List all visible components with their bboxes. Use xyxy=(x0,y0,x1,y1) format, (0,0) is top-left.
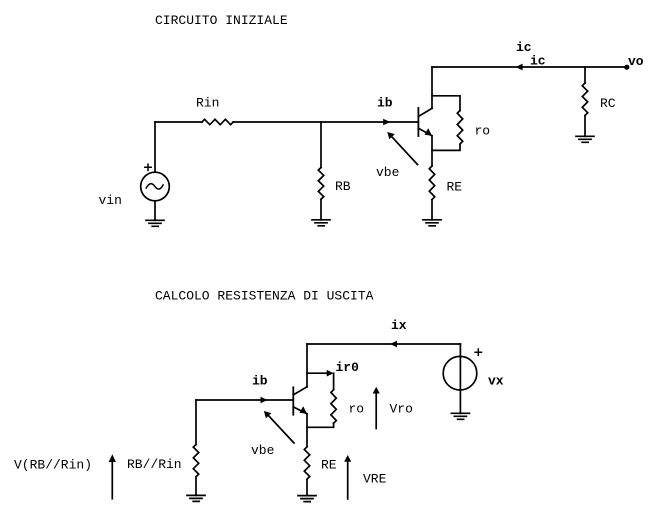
svg-text:vbe: vbe xyxy=(251,443,274,458)
source V1 vin: plus sign xyxy=(145,164,151,170)
svg-text:VRE: VRE xyxy=(363,472,387,487)
wire: Q2 collector up to rail xyxy=(306,344,308,387)
resistor RE (bottom circuit) xyxy=(304,447,309,479)
svg-text:vo: vo xyxy=(628,54,644,69)
wire: ro top branch xyxy=(432,96,460,111)
transistor Q2: base bar xyxy=(292,387,294,414)
resistor ro (bottom circuit) xyxy=(331,390,336,424)
wire: Q1 collector up to rail xyxy=(431,67,433,108)
wire: base rail left segment (vin to Rin) xyxy=(155,121,202,123)
source V1 vin: bottom lead wire xyxy=(154,201,156,221)
wire: base rail right segment (Rin to Q1 base) xyxy=(233,121,417,123)
transistor Q2: collector diagonal xyxy=(293,387,307,395)
resistor ro (top circuit) xyxy=(457,111,462,145)
svg-text:ir0: ir0 xyxy=(336,360,360,375)
source vx: plus sign xyxy=(475,349,481,355)
wire: ro top lead (bottom circuit) xyxy=(333,373,335,390)
wire: ir0 branch to ro xyxy=(307,372,330,374)
wire: top rail (bottom circuit) xyxy=(307,343,460,345)
ground under RB//Rin xyxy=(187,495,205,501)
wire: RE to ground (bottom circuit) xyxy=(306,479,308,495)
current arrow ib (bottom circuit) xyxy=(261,397,268,404)
resistor RE (top circuit) xyxy=(429,166,434,200)
voltage arrow vbe (top circuit) xyxy=(390,135,418,165)
ground under RB xyxy=(312,220,330,226)
wire: RB branch from rail xyxy=(320,122,322,168)
voltage arrow Vro xyxy=(375,393,377,429)
current arrow ib (top circuit) xyxy=(383,119,390,126)
transistor Q2: emitter diagonal xyxy=(293,407,307,414)
svg-text:Vro: Vro xyxy=(390,401,413,416)
svg-text:ro: ro xyxy=(475,124,491,139)
wire: RB//Rin branch xyxy=(195,400,197,444)
wire: RB to ground xyxy=(320,199,322,220)
wire: RB//Rin to ground xyxy=(195,477,197,495)
source V1 vin: circle xyxy=(141,172,170,201)
ground under RE (top circuit) xyxy=(423,220,441,226)
svg-text:V(RB//Rin): V(RB//Rin) xyxy=(14,458,92,473)
source vx: circle xyxy=(443,356,477,390)
transistor Q2: emitter arrowhead xyxy=(300,406,308,414)
wire: base rail (bottom circuit) xyxy=(196,399,293,401)
ground under RC xyxy=(576,136,594,142)
resistor RC xyxy=(582,83,587,115)
svg-text:Rin: Rin xyxy=(196,96,219,111)
wire: collector rail (top) xyxy=(432,66,627,68)
svg-text:ib: ib xyxy=(252,374,268,389)
voltage arrow V(RB//Rin) xyxy=(111,462,113,499)
source vx: lead wire through circle xyxy=(459,344,461,413)
wire: ro bottom branch xyxy=(432,144,460,150)
ground under RE (bottom circuit) xyxy=(298,496,316,502)
svg-text:RE: RE xyxy=(321,458,337,473)
wire: RC branch from rail xyxy=(584,67,586,83)
resistor Rin xyxy=(202,119,233,124)
source V1 vin: sine symbol xyxy=(146,184,163,189)
voltage arrow VRE xyxy=(347,461,349,499)
svg-text:vin: vin xyxy=(99,193,122,208)
svg-text:RB//Rin: RB//Rin xyxy=(127,457,182,472)
current arrow ix on rail xyxy=(390,341,397,348)
wire: RC to ground xyxy=(584,116,586,137)
source V1 vin: top lead wire xyxy=(154,122,156,172)
svg-text:ib: ib xyxy=(377,96,393,111)
transistor Q1: emitter diagonal xyxy=(418,128,432,136)
wire: ro bottom lead to emitter (bottom circuit) xyxy=(307,423,334,427)
ground under vx xyxy=(451,413,469,419)
transistor Q1: collector diagonal xyxy=(418,108,432,116)
transistor Q1: base bar xyxy=(417,108,419,136)
svg-text:RE: RE xyxy=(447,179,463,194)
wire: RE to ground xyxy=(431,200,433,220)
ground under vin xyxy=(146,220,164,226)
resistor RB xyxy=(318,168,323,200)
wire: Q2 emitter down to RE xyxy=(306,414,308,447)
svg-text:CALCOLO RESISTENZA DI USCITA: CALCOLO RESISTENZA DI USCITA xyxy=(155,289,374,304)
svg-text:CIRCUITO INIZIALE: CIRCUITO INIZIALE xyxy=(155,13,288,28)
voltage arrow vbe (bottom circuit) xyxy=(267,414,295,444)
current arrow ic on rail xyxy=(516,64,523,71)
svg-text:ic: ic xyxy=(530,54,546,69)
wire: Q1 emitter down to RE xyxy=(431,136,433,166)
svg-text:vbe: vbe xyxy=(376,165,399,180)
resistor RB//Rin xyxy=(193,444,198,476)
svg-text:RC: RC xyxy=(600,96,616,111)
svg-text:ix: ix xyxy=(391,318,407,333)
svg-text:RB: RB xyxy=(335,179,351,194)
svg-text:ro: ro xyxy=(349,401,365,416)
transistor Q1: emitter arrowhead xyxy=(425,128,433,136)
current arrow ir0 xyxy=(327,370,334,377)
svg-text:vx: vx xyxy=(488,374,504,389)
node vo dot xyxy=(624,65,629,70)
